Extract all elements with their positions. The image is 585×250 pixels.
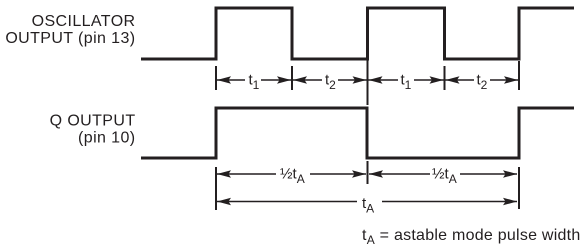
tick at t=292 row1 bbox=[291, 66, 293, 90]
svg-text:(pin 10): (pin 10) bbox=[78, 130, 135, 147]
svg-text:OSCILLATOR: OSCILLATOR bbox=[32, 13, 136, 30]
svg-text:t1: t1 bbox=[249, 71, 260, 92]
svg-text:t1: t1 bbox=[401, 71, 412, 92]
svg-text:½tA: ½tA bbox=[280, 165, 305, 186]
t1 dimension arrow (first) bbox=[217, 79, 245, 81]
tA dimension arrow bbox=[217, 201, 357, 203]
tick at t=216 row2 bbox=[215, 167, 217, 210]
tick at t=444 row1 bbox=[444, 66, 446, 90]
svg-text:½tA: ½tA bbox=[432, 165, 457, 186]
tick at t=368 row2 bbox=[367, 161, 369, 184]
svg-text:t2: t2 bbox=[477, 71, 488, 92]
t1 dimension arrow (second) bbox=[369, 79, 399, 81]
svg-text:OUTPUT (pin 13): OUTPUT (pin 13) bbox=[5, 30, 135, 47]
svg-text:tA = astable mode pulse width: tA = astable mode pulse width bbox=[362, 227, 581, 247]
tick at t=519 row1 bbox=[518, 61, 520, 90]
oscillator output waveform bbox=[141, 8, 574, 59]
half-tA dimension arrow (first) bbox=[217, 173, 276, 175]
half-tA dimension arrow (second) bbox=[369, 173, 430, 175]
svg-text:Q OUTPUT: Q OUTPUT bbox=[50, 113, 136, 130]
tick at t=519 row2 bbox=[518, 167, 520, 209]
svg-text:tA: tA bbox=[362, 195, 374, 216]
Q output waveform bbox=[141, 108, 574, 158]
t2 dimension arrow (first) bbox=[293, 79, 322, 81]
svg-text:t2: t2 bbox=[325, 71, 336, 92]
tick at t=368 row1 bbox=[367, 60, 369, 105]
t2 dimension arrow (second) bbox=[446, 79, 475, 81]
tick at t=216 row1 bbox=[215, 66, 217, 90]
